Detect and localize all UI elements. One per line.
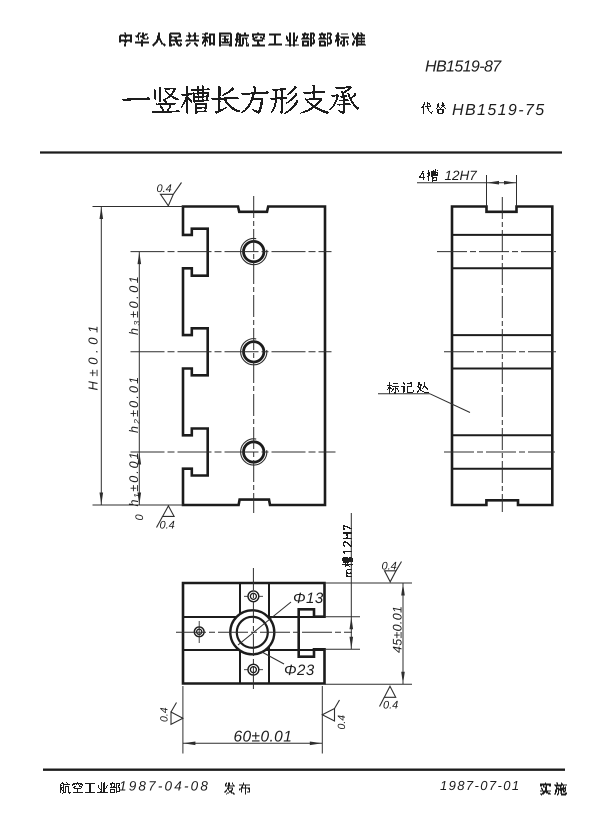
plan view inner vertical slot lines xyxy=(239,583,241,684)
bottom edge extension line (datum 0) xyxy=(93,504,184,506)
surface finish 0.4 left of 60 dimension xyxy=(171,712,183,724)
footer rule xyxy=(43,769,565,771)
svg-text:0.4: 0.4 xyxy=(160,520,175,532)
hole 1 horizontal centreline xyxy=(131,251,332,253)
dimension 45±0.01 extension lines xyxy=(325,582,413,584)
left small hole (double circle) xyxy=(194,627,204,637)
svg-text:60±0.01: 60±0.01 xyxy=(234,729,293,746)
plan view vertical centreline xyxy=(252,568,254,691)
side view outline with top slot and bottom notches xyxy=(452,207,552,506)
plan view inner horizontal groove lines xyxy=(183,616,325,618)
surface finish 0.4 bottom of front view xyxy=(163,506,175,517)
front view outline with three T-slots and top/bottom notches xyxy=(183,207,325,506)
dimension 45±0.01 line with arrows xyxy=(402,583,404,684)
footer 实施 xyxy=(540,783,567,796)
svg-text:1987-07-01: 1987-07-01 xyxy=(440,778,521,793)
surface finish 0.4 top of front view xyxy=(161,194,174,206)
surface finish 0.4 right of 60 dimension xyxy=(322,709,334,722)
svg-text:0.4: 0.4 xyxy=(382,561,397,573)
svg-text:HB1519-75: HB1519-75 xyxy=(452,102,546,119)
plan view horizontal centreline xyxy=(176,631,352,633)
chain dimension line h1 h2 h3 xyxy=(138,252,140,505)
header: standard body name 中华人民共和国航空工业部部标准 xyxy=(119,33,366,47)
side view groove edge lines xyxy=(452,234,552,236)
surface finish 0.4 below 45 dimension xyxy=(384,686,395,697)
dimension label 4槽12H7 xyxy=(419,169,438,182)
vertical-slot width dimension line xyxy=(350,513,352,649)
top edge extension line xyxy=(93,206,184,208)
svg-text:0.4: 0.4 xyxy=(336,715,348,730)
svg-text:45±0.01: 45±0.01 xyxy=(391,606,405,653)
svg-text:h₂±0.01: h₂±0.01 xyxy=(127,375,141,433)
superseded note 代替 HB1519-75 xyxy=(421,102,446,114)
leader note 标记处 xyxy=(387,382,429,394)
bottom small hole (double circle) xyxy=(248,664,259,675)
counterbore Φ23 circle xyxy=(230,610,274,654)
threaded hole 2 (bold circle + thread arc) xyxy=(244,342,264,362)
svg-text:H±0.01: H±0.01 xyxy=(86,321,101,390)
front view vertical centreline xyxy=(253,196,255,513)
dimension 4槽12H7 line with arrows xyxy=(417,182,517,184)
drawing title 一竖槽长方形支承 xyxy=(122,85,359,114)
hole 3 horizontal centreline xyxy=(131,451,336,453)
threaded hole 3 (bold circle + thread arc) xyxy=(244,442,264,462)
surface finish 0.4 above 45 dimension xyxy=(385,571,397,582)
hole 2 horizontal centreline xyxy=(131,351,332,353)
svg-text:0.4: 0.4 xyxy=(383,700,398,712)
side view vertical centreline xyxy=(501,197,503,512)
svg-text:12H7: 12H7 xyxy=(445,168,478,183)
footer issuing body 航空工业部 xyxy=(60,782,120,794)
svg-text:1987-04-08: 1987-04-08 xyxy=(119,779,210,794)
dimension H±0.01 line with arrows xyxy=(100,207,102,506)
threaded hole 1 (bold circle + thread arc) xyxy=(244,241,264,261)
footer 发布 xyxy=(224,783,250,795)
slot width extension lines xyxy=(486,175,488,207)
hole Φ13 circle xyxy=(237,617,268,648)
svg-text:h₁±0.01: h₁±0.01 xyxy=(127,450,141,506)
svg-text:0.4: 0.4 xyxy=(159,707,171,722)
svg-text:0.4: 0.4 xyxy=(157,183,172,195)
svg-text:HB1519-87: HB1519-87 xyxy=(425,59,502,76)
svg-text:h₃±0.01: h₃±0.01 xyxy=(127,274,141,335)
header rule xyxy=(40,151,562,153)
vertical-slot label m槽12H7 (rotated) xyxy=(342,525,353,577)
top small hole (double circle) xyxy=(248,591,259,602)
svg-text:Φ23: Φ23 xyxy=(284,662,315,679)
dimension 60±0.01 line with arrows xyxy=(183,742,322,744)
side view slot centrelines (dash-dot) xyxy=(437,251,556,253)
svg-text:0: 0 xyxy=(134,514,146,521)
dimension 60±0.01 extension lines xyxy=(182,686,184,754)
svg-text:Φ13: Φ13 xyxy=(293,590,324,607)
plan view outline with right-hand vertical T-slot xyxy=(183,583,325,684)
